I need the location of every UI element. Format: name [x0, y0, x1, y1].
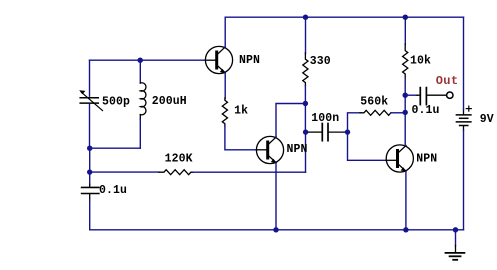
- wire Q1 emitter down to 1k: [224, 73, 226, 99]
- node tank top junction: [138, 58, 143, 63]
- wire to 120K resistor: [90, 171, 159, 173]
- node 330 bottom collector junction: [303, 101, 308, 106]
- wire bottom rail: [90, 229, 464, 231]
- wire battery bottom to rail: [463, 131, 465, 230]
- value label 120K: [165, 153, 193, 166]
- capacitor C3 100n: [309, 124, 345, 141]
- svg-text:9V: 9V: [480, 113, 494, 126]
- wire 100n right lead to junction: [344, 131, 348, 133]
- wire 10k top lead: [404, 17, 406, 44]
- wire left rail bottom to ground rail: [89, 200, 91, 230]
- node tank bottom junction: [87, 146, 92, 151]
- resistor R1 120K: [159, 170, 193, 175]
- wire Q2 collector up and right to 330 node: [276, 104, 305, 138]
- inductor L1 200uH: [140, 83, 146, 120]
- wire battery top to rail: [463, 17, 465, 109]
- wire 330 top lead: [305, 17, 307, 53]
- transistor Q2 NPN: [256, 136, 283, 163]
- capacitor C1 variable 500p: [79, 90, 102, 110]
- wire 10k bottom lead: [404, 79, 406, 96]
- svg-text:200uH: 200uH: [152, 95, 187, 108]
- wire Q1 collector riser: [224, 17, 226, 47]
- wire tank top from left corner to Q1 base: [90, 59, 206, 61]
- wire 330 junction down to 100n junction: [304, 104, 306, 133]
- svg-text:NPN: NPN: [239, 54, 260, 67]
- wire feedback riser up to 100n node: [305, 132, 307, 172]
- ground: [446, 246, 465, 260]
- label NPN Q1: [239, 54, 260, 67]
- wire output tap down to 560k node: [404, 95, 406, 112]
- wire left rail top down to variable capacitor: [89, 60, 91, 96]
- svg-text:500p: 500p: [102, 96, 130, 109]
- svg-text:100n: 100n: [311, 112, 339, 125]
- svg-text:1k: 1k: [234, 105, 248, 118]
- value label 0.1u left: [99, 184, 127, 197]
- label NPN Q3: [416, 152, 437, 165]
- svg-text:Out: Out: [436, 74, 459, 88]
- resistor R2 1k: [222, 98, 227, 126]
- svg-text:NPN: NPN: [416, 152, 437, 165]
- wire inductor bottom lead: [139, 119, 141, 148]
- svg-text:10k: 10k: [410, 55, 431, 68]
- value label 560k: [360, 95, 388, 108]
- wire 330 bottom lead: [304, 86, 306, 104]
- node top rail 10k: [403, 15, 408, 20]
- wire tank bottom: [90, 147, 141, 149]
- node 100n left junction: [303, 129, 308, 134]
- wire output tap to 0.1u coupling cap: [405, 94, 417, 96]
- node output tap: [403, 93, 408, 98]
- wire left rail middle segment: [89, 148, 91, 172]
- node ground junction: [453, 227, 458, 232]
- node Q3 emitter on rail: [403, 227, 408, 232]
- transistor Q3 NPN: [386, 145, 413, 172]
- wire variable capacitor bottom to tank bottom: [89, 104, 91, 148]
- wire left rail down to 0.1u capacitor: [89, 172, 91, 184]
- node 100n right junction: [345, 129, 350, 134]
- value label 330: [310, 55, 331, 68]
- capacitor C4 0.1u output: [417, 88, 446, 105]
- terminal Out circle: [447, 92, 453, 98]
- value label 200uH: [152, 95, 187, 108]
- resistor R3 330: [303, 53, 308, 86]
- svg-text:NPN: NPN: [287, 143, 308, 156]
- capacitor C2 0.1u: [82, 184, 99, 200]
- wire 560k right lead to out node: [391, 112, 405, 114]
- wire inductor top lead: [139, 60, 141, 83]
- wire 100n junction up to 560k: [348, 113, 361, 132]
- wire 120K to feedback riser: [193, 171, 306, 173]
- transistor Q1 NPN: [205, 46, 232, 73]
- node top rail 330: [303, 15, 308, 20]
- wire top rail: [225, 16, 463, 18]
- resistor R4 560k: [360, 110, 391, 115]
- value label 100n: [311, 112, 339, 125]
- node 560k right junction: [403, 110, 408, 115]
- value label 1k: [234, 105, 248, 118]
- node Q2 emitter on rail: [273, 227, 278, 232]
- svg-text:0.1u: 0.1u: [412, 104, 440, 117]
- node left rail 120K junction: [87, 169, 92, 174]
- value label 9V: [480, 113, 494, 126]
- value label 0.1u output: [412, 104, 440, 117]
- wire 100n junction down to Q3 base: [348, 132, 387, 160]
- wire ground stem: [455, 230, 457, 246]
- value label 500p: [102, 96, 130, 109]
- label Out: [436, 74, 459, 88]
- wire Q2 emitter to bottom rail: [275, 163, 277, 230]
- svg-text:560k: 560k: [360, 95, 388, 108]
- svg-text:330: 330: [310, 55, 331, 68]
- battery B1 9V: [456, 106, 471, 130]
- svg-text:120K: 120K: [165, 153, 193, 166]
- svg-text:0.1u: 0.1u: [99, 184, 127, 197]
- wire 560k node down to Q3 collector: [404, 112, 406, 145]
- value label 10k: [410, 55, 431, 68]
- wire Q3 emitter to bottom rail: [405, 172, 407, 230]
- resistor R5 10k: [403, 44, 408, 79]
- wire 1k bottom to Q2 base: [225, 126, 257, 150]
- label NPN Q2: [287, 143, 308, 156]
